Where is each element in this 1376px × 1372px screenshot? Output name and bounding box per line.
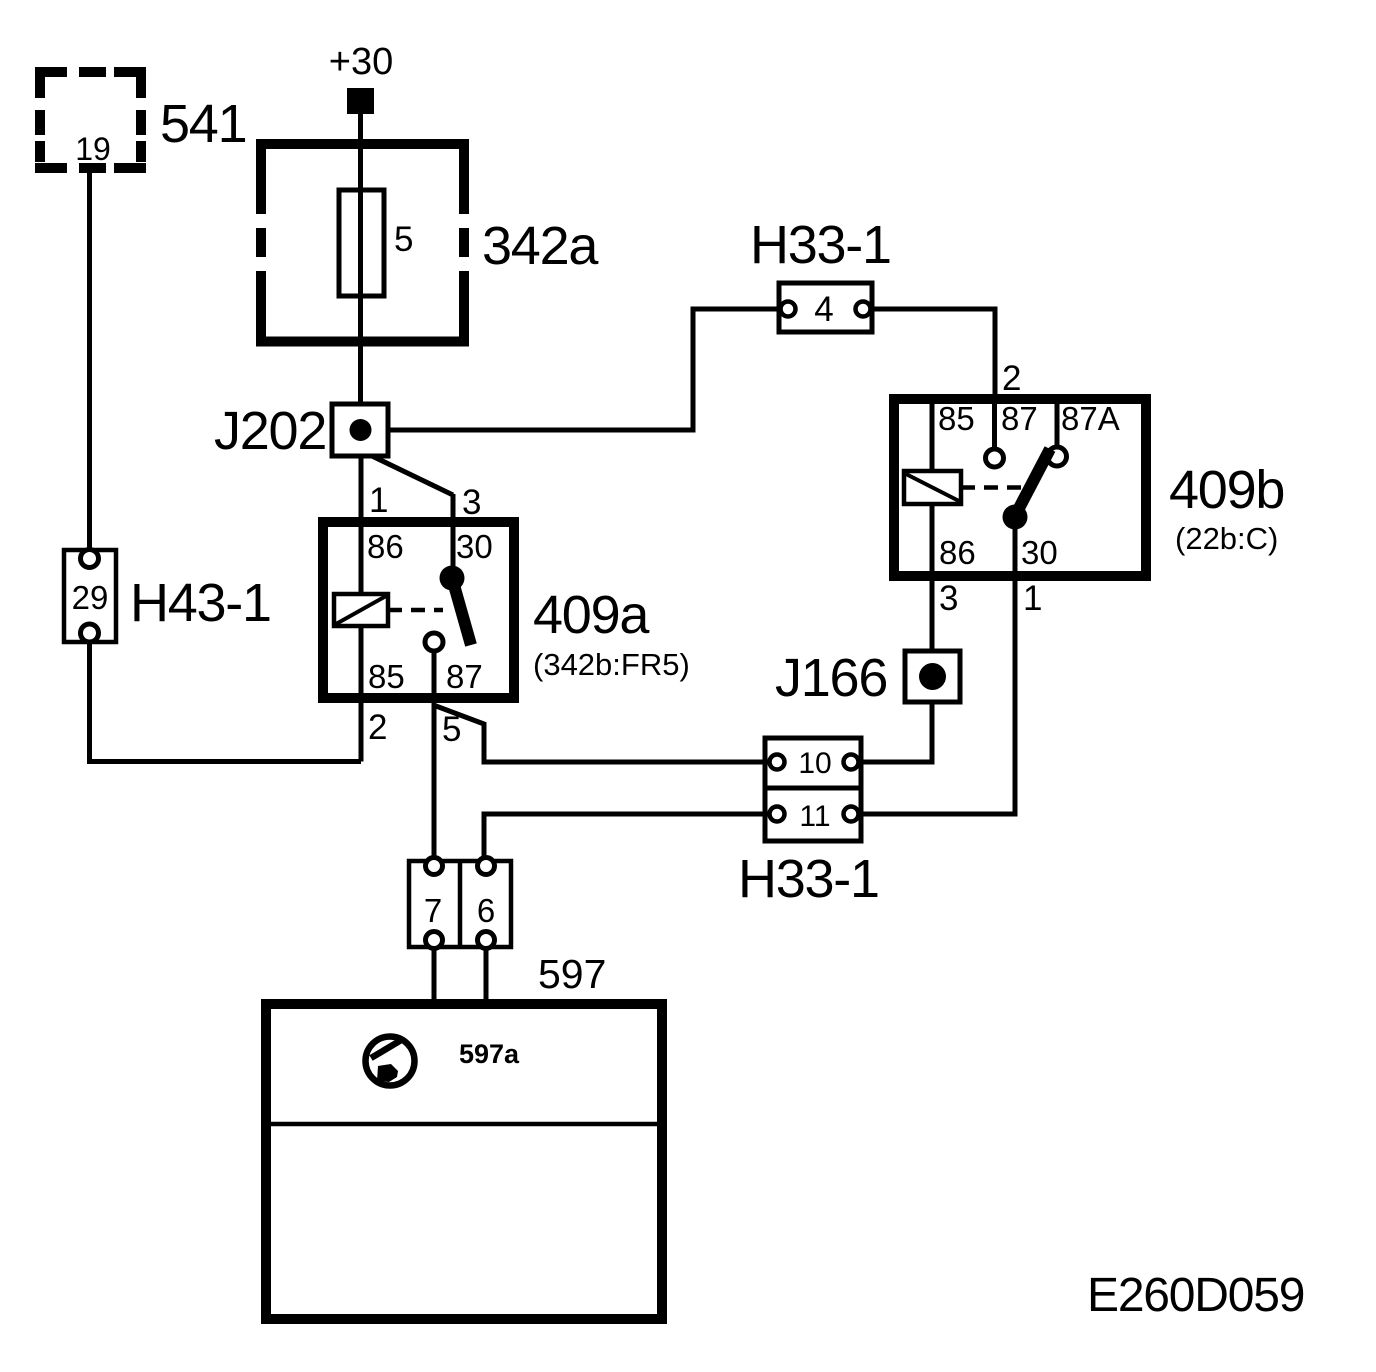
connector H33-1 pin 4 — [779, 283, 872, 332]
fuel pump unit 597 box — [266, 1004, 662, 1319]
relay 409b — [894, 399, 1146, 576]
diagonal wire J202 to pin 3 — [372, 456, 453, 495]
409a wire pin1/86 from J202 — [359, 456, 364, 594]
svg-text:+30: +30 — [329, 41, 393, 83]
409a wire pin3/30 — [451, 494, 456, 578]
svg-text:87: 87 — [446, 658, 483, 695]
409b terminal 30 wire down to H33-1 pin 11 (wire 1) — [859, 517, 1015, 814]
409b terminal 87 wire and contact — [992, 404, 997, 449]
409a switch arm — [440, 566, 465, 591]
svg-text:H33-1: H33-1 — [750, 215, 891, 275]
wire J202 to H33-1 pin 4 — [388, 309, 779, 430]
svg-text:5: 5 — [394, 220, 413, 259]
svg-text:342a: 342a — [482, 216, 599, 276]
svg-text:J166: J166 — [775, 648, 887, 708]
svg-text:H43-1: H43-1 — [130, 573, 271, 633]
svg-text:409b: 409b — [1169, 460, 1284, 520]
409b terminal 87A wire and contact — [1055, 404, 1060, 447]
svg-text:87: 87 — [1001, 400, 1038, 437]
409b terminal 86 wire to J166 — [930, 504, 935, 651]
connector H43-1 — [64, 550, 116, 642]
svg-text:H33-1: H33-1 — [738, 849, 879, 909]
409a terminal 87 contact — [425, 633, 443, 651]
wire H33-1 pin 4 to relay 409b terminal 87 (wire 2) — [870, 309, 995, 399]
svg-text:2: 2 — [368, 708, 387, 747]
svg-text:597a: 597a — [459, 1039, 520, 1069]
svg-text:409a: 409a — [533, 585, 650, 645]
terminal +30 square — [347, 88, 374, 114]
409a coil — [334, 594, 388, 626]
wire H33-1 pin 11 to connector pin 6 — [484, 814, 770, 863]
connector H33-1 pins 10/11 — [765, 738, 861, 788]
pump symbol 597a — [366, 1037, 415, 1086]
svg-text:19: 19 — [75, 131, 111, 167]
409b switch arm — [1016, 449, 1050, 514]
wire pin 6 to pump 597 — [484, 948, 489, 1004]
409b terminal 85 wire — [930, 404, 935, 471]
junction J202 — [332, 404, 388, 456]
svg-text:29: 29 — [72, 579, 109, 616]
svg-text:87A: 87A — [1061, 400, 1120, 437]
connector pins 7/6 — [409, 861, 511, 947]
svg-text:597: 597 — [538, 951, 606, 997]
svg-text:85: 85 — [938, 400, 975, 437]
svg-text:1: 1 — [1023, 579, 1042, 618]
svg-text:(22b:C): (22b:C) — [1175, 521, 1278, 556]
svg-text:85: 85 — [368, 658, 405, 695]
409b coil — [904, 471, 961, 504]
svg-text:541: 541 — [160, 94, 246, 154]
svg-text:1: 1 — [369, 481, 388, 520]
409a dashed actuation line — [388, 608, 443, 613]
svg-text:(342b:FR5): (342b:FR5) — [533, 647, 690, 682]
relay 409a — [323, 522, 514, 698]
svg-text:30: 30 — [456, 528, 493, 565]
svg-text:30: 30 — [1021, 534, 1058, 571]
svg-text:J202: J202 — [214, 401, 326, 461]
fuse holder 342a box — [256, 139, 469, 346]
svg-text:10: 10 — [798, 747, 831, 780]
wire +30 to J202 — [358, 114, 363, 404]
wire J166 to H33-1 pin 10 — [859, 702, 932, 762]
junction J166 — [905, 651, 960, 702]
409a wire pin2/85 — [359, 626, 364, 762]
connector 541 (dashed box) — [35, 67, 146, 168]
svg-text:86: 86 — [367, 528, 404, 565]
svg-text:4: 4 — [814, 290, 833, 329]
svg-text:3: 3 — [462, 483, 481, 522]
svg-text:3: 3 — [939, 579, 958, 618]
svg-text:11: 11 — [799, 800, 830, 833]
409a wire pin5/87 down to pin 7 — [432, 651, 437, 864]
409b dashed actuation line — [961, 485, 1028, 490]
svg-text:5: 5 — [442, 710, 461, 749]
wire H33-1 pin 10 to relay 409a pin 87 (wire 5 branch) — [436, 706, 770, 762]
fuse 5 — [339, 190, 384, 296]
wire pin 7 to pump 597 — [432, 948, 437, 1004]
svg-text:86: 86 — [939, 534, 976, 571]
svg-text:2: 2 — [1002, 359, 1021, 398]
wire 541 pin 19 to H43-1 — [87, 173, 92, 550]
svg-text:6: 6 — [477, 892, 495, 929]
svg-text:E260D059: E260D059 — [1087, 1269, 1304, 1322]
wire H43-1 to relay 409a pin 2 — [90, 642, 362, 762]
svg-text:7: 7 — [424, 892, 442, 929]
